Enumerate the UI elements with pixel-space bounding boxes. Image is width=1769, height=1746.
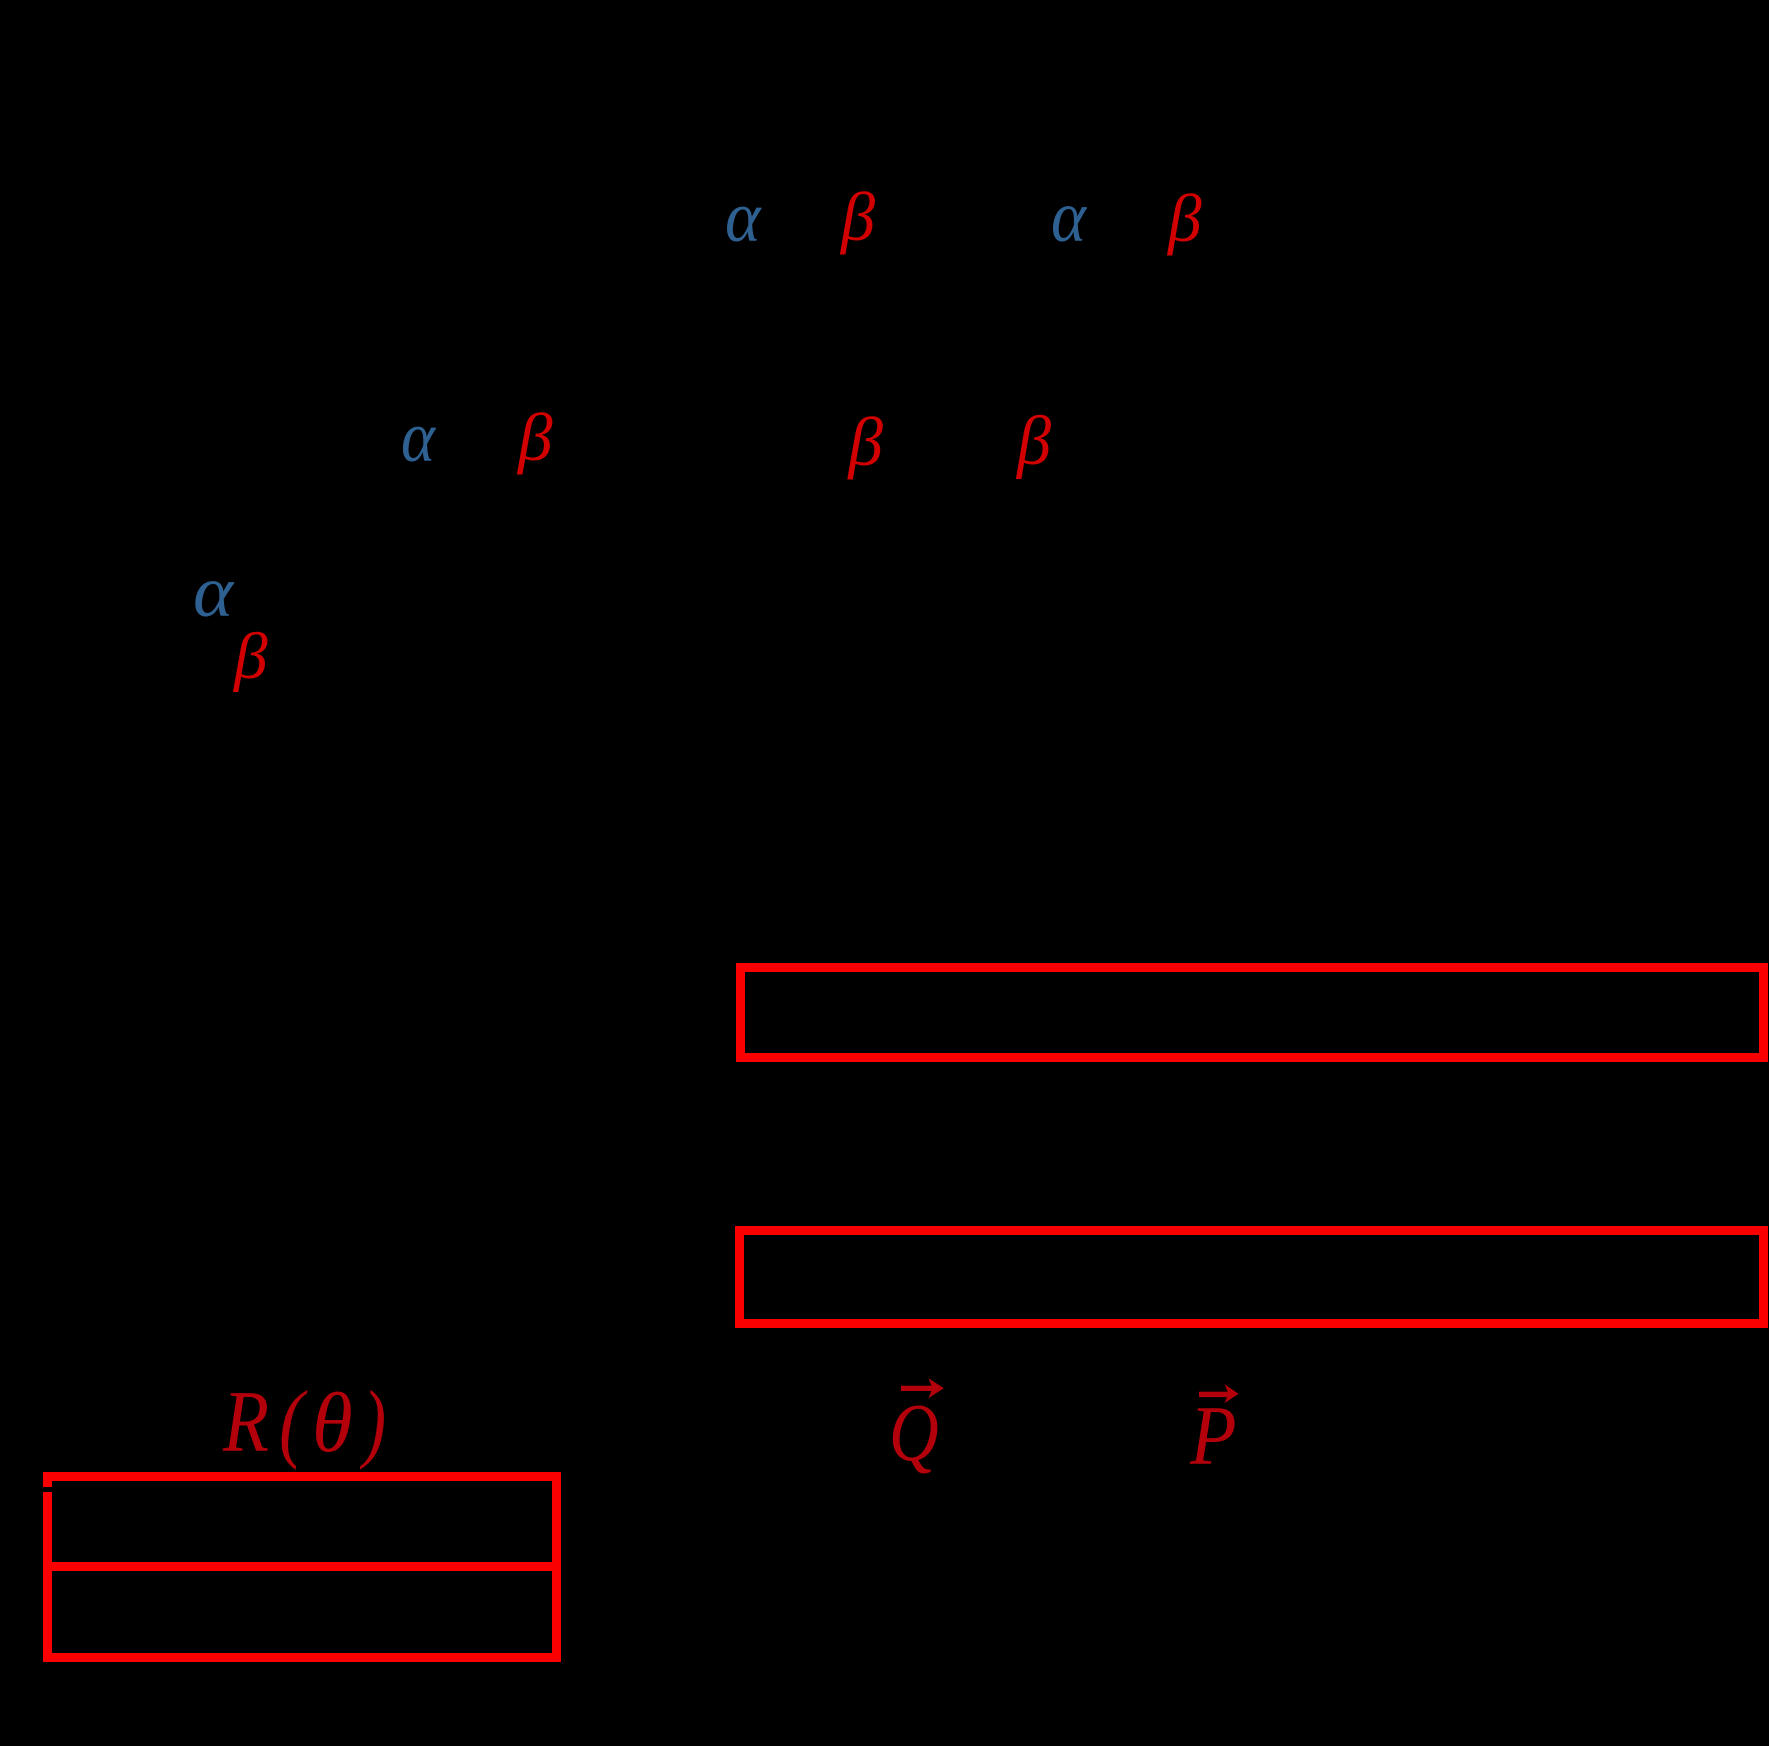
vector arrow over P: [1199, 1384, 1239, 1403]
label theta of R(theta): [311, 1422, 313, 1424]
middle divider of double box: [43, 1562, 561, 1571]
node beta (red) row2 third: [1016, 441, 1018, 443]
red double box around rotation matrix R(theta): [43, 1472, 561, 1662]
label R of R(theta): [222, 1421, 224, 1423]
node beta (red) row2 first: [517, 437, 519, 439]
red highlight box 2 (sin addition formula): [735, 1226, 1768, 1328]
node alpha (blue) row2: [400, 436, 402, 438]
label ( of R(theta): [278, 1421, 280, 1423]
node beta (red) row1 right pair: [1167, 217, 1169, 219]
node alpha (blue) row1 right pair: [1050, 216, 1052, 218]
label ) of R(theta): [362, 1421, 364, 1423]
black text overlap gap in double-box left border: [40, 1487, 54, 1492]
node beta (red) row1 left pair: [840, 216, 842, 218]
red highlight box 1 (cos addition formula): [736, 963, 1769, 1062]
node alpha (blue) row3: [192, 591, 194, 593]
label Q vector: [888, 1431, 890, 1433]
node alpha (blue) row1 left pair: [724, 216, 726, 218]
label P vector: [1189, 1436, 1191, 1438]
node beta (red) row3 subscript: [233, 656, 235, 658]
node beta (red) row2 second: [847, 441, 849, 443]
